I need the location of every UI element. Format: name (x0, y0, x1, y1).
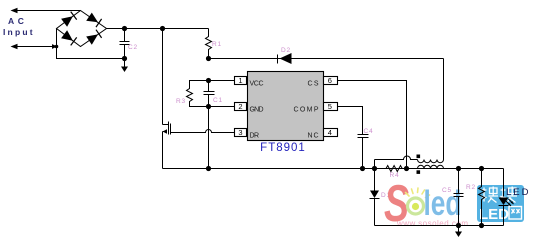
svg-text:DR: DR (250, 133, 260, 140)
svg-text:R3: R3 (176, 98, 186, 105)
svg-text:R2: R2 (466, 184, 476, 191)
svg-text:COMP: COMP (294, 107, 319, 114)
svg-text:NC: NC (308, 133, 319, 140)
svg-text:5: 5 (328, 102, 332, 111)
svg-text:CS: CS (308, 81, 319, 88)
svg-text:R1: R1 (212, 41, 222, 48)
svg-text:C1: C1 (213, 97, 223, 104)
svg-text:C2: C2 (128, 44, 138, 51)
svg-text:3: 3 (238, 128, 242, 137)
svg-text:VCC: VCC (250, 81, 264, 88)
svg-text:2: 2 (238, 102, 242, 111)
svg-text:A C: A C (8, 16, 25, 26)
svg-text:C5: C5 (442, 187, 452, 194)
svg-text:6: 6 (328, 76, 332, 85)
svg-text:R4: R4 (390, 172, 400, 179)
svg-text:FT8901: FT8901 (260, 142, 306, 154)
svg-text:4: 4 (328, 128, 332, 137)
svg-text:LED: LED (506, 187, 530, 198)
svg-text:D2: D2 (281, 47, 291, 54)
svg-text:LED: LED (479, 206, 509, 223)
svg-text:GND: GND (250, 107, 264, 114)
svg-text:1: 1 (238, 76, 242, 85)
svg-text:C4: C4 (364, 128, 374, 135)
svg-text:Input: Input (3, 27, 35, 37)
